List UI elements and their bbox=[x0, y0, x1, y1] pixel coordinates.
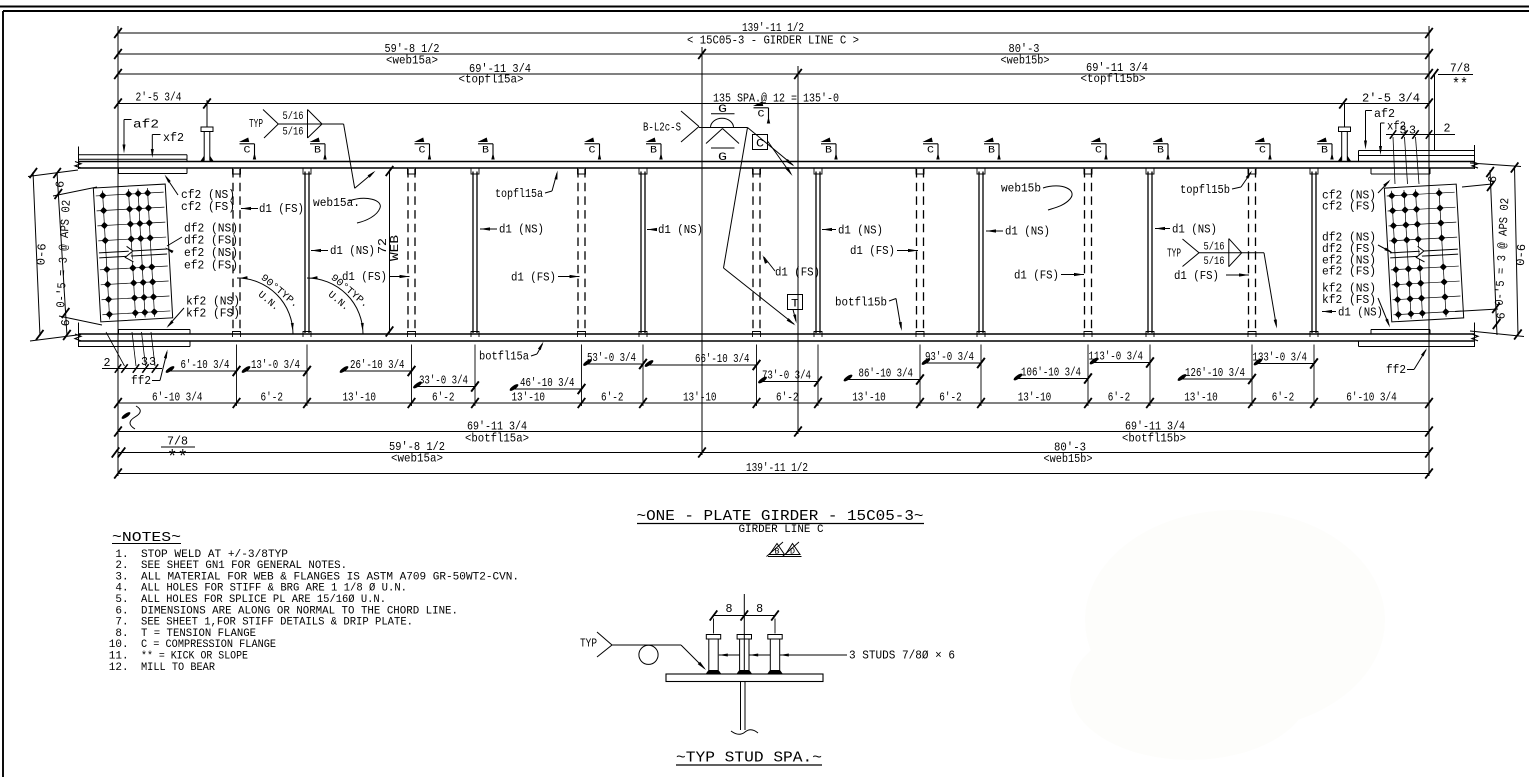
running dim 13'-0 3/4 bbox=[242, 370, 307, 372]
stiffener extension line down at x=920 bbox=[919, 345, 921, 407]
leader from weld symbol to bottom flange splice bbox=[724, 128, 748, 269]
flange splice plate kf2 right bbox=[1371, 329, 1430, 331]
section mark C at x=920 bbox=[923, 143, 938, 145]
svg-text:botfl15b: botfl15b bbox=[835, 296, 887, 310]
dim line web15a / web15b (bottom) bbox=[118, 452, 1429, 454]
stiffener clip top at x=1314 bbox=[1310, 169, 1318, 175]
svg-text:C: C bbox=[758, 109, 765, 121]
dim line 139'-11 1/2 overall (top) bbox=[118, 32, 1429, 34]
web splice bolt group right bbox=[1384, 184, 1463, 322]
extension line flange/field splice centerline x=798 bbox=[797, 66, 799, 434]
right end vertical top bbox=[1474, 145, 1476, 169]
svg-text:ff2: ff2 bbox=[131, 374, 151, 388]
stud detail weld-all-around circle bbox=[639, 645, 658, 664]
svg-text:d1 (NS): d1 (NS) bbox=[330, 244, 375, 258]
svg-text:<topfl15b>: <topfl15b> bbox=[1081, 72, 1146, 86]
stiffener extension line down at x=475 bbox=[474, 345, 476, 407]
svg-text:13'-0 3/4: 13'-0 3/4 bbox=[251, 358, 300, 372]
svg-text:113'-0 3/4: 113'-0 3/4 bbox=[1089, 350, 1144, 364]
svg-text:SEE SHEET GN1 FOR GENERAL NOTE: SEE SHEET GN1 FOR GENERAL NOTES. bbox=[141, 560, 347, 572]
running dim 126'-10 3/4 bbox=[1178, 378, 1252, 380]
left end vertical (adjacent girder stub end) top bbox=[78, 147, 80, 170]
svg-text:B: B bbox=[1321, 145, 1328, 157]
running dim 93'-0 3/4 bbox=[922, 362, 981, 364]
section mark B at x=981 bbox=[984, 143, 999, 145]
svg-text:6'-2: 6'-2 bbox=[261, 391, 283, 405]
svg-text:C: C bbox=[756, 139, 764, 151]
svg-text:xf2: xf2 bbox=[163, 131, 184, 145]
svg-text:3: 3 bbox=[141, 355, 148, 369]
svg-text:5/16: 5/16 bbox=[1204, 242, 1225, 254]
splice fill plate xf2 left bbox=[186, 159, 188, 161]
svg-text:topfl15a: topfl15a bbox=[495, 187, 543, 201]
svg-text:13'-10: 13'-10 bbox=[683, 391, 717, 405]
stiffener clip bottom at x=756.5 bbox=[753, 332, 761, 338]
svg-text:ff2: ff2 bbox=[1386, 363, 1406, 377]
stiffener clip bottom at x=1088 bbox=[1084, 332, 1092, 338]
svg-text:d1 (FS): d1 (FS) bbox=[850, 244, 895, 258]
svg-text:d1 (FS): d1 (FS) bbox=[259, 202, 304, 216]
running dim 66'-10 3/4 bbox=[645, 364, 757, 366]
svg-text:d1 (FS): d1 (FS) bbox=[775, 266, 820, 280]
stiffener clip bottom at x=307 bbox=[303, 332, 311, 338]
svg-text:11.: 11. bbox=[109, 651, 129, 663]
girder bottom flange bottom line bbox=[79, 340, 1475, 342]
svg-text:~TYP STUD SPA.~: ~TYP STUD SPA.~ bbox=[676, 750, 822, 767]
svg-text:3.: 3. bbox=[115, 571, 128, 583]
stiffener clip top at x=920 bbox=[916, 169, 924, 175]
svg-text:3 STUDS 7/8Ø × 6: 3 STUDS 7/8Ø × 6 bbox=[849, 649, 955, 663]
svg-text:C: C bbox=[927, 145, 934, 157]
svg-text:d1 (NS): d1 (NS) bbox=[1338, 306, 1383, 320]
svg-text:139'-11 1/2: 139'-11 1/2 bbox=[746, 461, 808, 475]
web depth dim line 72 WEB bbox=[389, 170, 391, 334]
svg-text:cf2 (FS): cf2 (FS) bbox=[181, 200, 235, 214]
stiffener extension line down at x=1314 bbox=[1313, 345, 1315, 407]
svg-text:5/16: 5/16 bbox=[1204, 256, 1225, 268]
svg-text:2'-5 3/4: 2'-5 3/4 bbox=[1362, 92, 1420, 106]
section mark B at x=818 bbox=[821, 143, 836, 145]
svg-text:6'-10 3/4: 6'-10 3/4 bbox=[1346, 391, 1396, 405]
section mark B at x=307 bbox=[310, 143, 325, 145]
running dim 53'-0 3/4 bbox=[584, 363, 644, 365]
svg-text:~ONE - PLATE GIRDER - 15C05-3~: ~ONE - PLATE GIRDER - 15C05-3~ bbox=[637, 508, 924, 525]
running dim 133'-0 3/4 bbox=[1254, 363, 1314, 365]
svg-text:86'-10 3/4: 86'-10 3/4 bbox=[859, 367, 914, 381]
svg-text:MILL TO BEAR: MILL TO BEAR bbox=[141, 662, 215, 674]
svg-text:6'-10 3/4: 6'-10 3/4 bbox=[180, 358, 229, 372]
svg-text:2: 2 bbox=[1444, 122, 1451, 136]
section mark B at x=475 bbox=[478, 143, 493, 145]
svg-text:7/8: 7/8 bbox=[167, 435, 188, 449]
svg-text:6: 6 bbox=[59, 319, 73, 327]
dim line web15a / web15b (top) bbox=[118, 53, 1429, 55]
svg-text:< 15C05-3 - GIRDER LINE C >: < 15C05-3 - GIRDER LINE C > bbox=[687, 34, 859, 48]
svg-text:<web15a>: <web15a> bbox=[391, 452, 443, 466]
extension line web splice x=702 bbox=[701, 47, 703, 455]
stiffener extension line down at x=581.5 bbox=[581, 345, 583, 407]
flange splice plate cf2 right bbox=[1371, 173, 1430, 175]
vertical dim 6-0 right (tilted) bbox=[1515, 166, 1519, 336]
svg-text:B: B bbox=[1157, 145, 1164, 157]
stiffener d1 (FS dashed) at x=581.5 bbox=[577, 169, 579, 334]
running dim 86'-10 3/4 bbox=[844, 379, 920, 381]
svg-text:6'-2: 6'-2 bbox=[601, 391, 623, 405]
svg-text:7.: 7. bbox=[115, 617, 128, 629]
stiffener clip top at x=411.5 bbox=[408, 169, 416, 175]
section mark C at x=1088 bbox=[1091, 143, 1106, 145]
svg-text:13'-10: 13'-10 bbox=[342, 391, 376, 405]
svg-text:6'-2: 6'-2 bbox=[776, 391, 798, 405]
svg-text:126'-10 3/4: 126'-10 3/4 bbox=[1185, 366, 1245, 380]
svg-text:4.: 4. bbox=[115, 583, 128, 595]
note 7/8 ** kick dim at top right bbox=[1434, 75, 1436, 150]
section mark C at x=750.5 bbox=[754, 107, 769, 109]
svg-text:**: ** bbox=[1452, 76, 1468, 94]
girder bottom flange top line (web bottom) bbox=[79, 333, 1475, 335]
svg-text:T = TENSION FLANGE: T = TENSION FLANGE bbox=[141, 628, 256, 640]
stiffener clip top at x=643 bbox=[639, 169, 647, 175]
stiffener clip top at x=981 bbox=[977, 169, 985, 175]
stiffener d1 (NS solid) at x=818 bbox=[815, 172, 817, 334]
dim line topfl15a / topfl15b (top) bbox=[118, 73, 1429, 75]
svg-text:<botfl15b>: <botfl15b> bbox=[1122, 432, 1186, 446]
svg-text:133'-0 3/4: 133'-0 3/4 bbox=[1253, 351, 1308, 365]
splice fill plate af2 right bbox=[1359, 150, 1475, 152]
section mark C at x=411.5 bbox=[415, 143, 430, 145]
extension line right bearing x=1429 bbox=[1428, 26, 1430, 476]
svg-text:135 SPA.@ 12 = 135'-0: 135 SPA.@ 12 = 135'-0 bbox=[713, 92, 839, 106]
stud post extension line left bbox=[206, 100, 208, 127]
svg-text:d1 (NS): d1 (NS) bbox=[658, 223, 703, 237]
flange splice plate ff2 right bbox=[1359, 346, 1475, 348]
svg-text:46'-10 3/4: 46'-10 3/4 bbox=[520, 376, 575, 390]
flange splice plate cf2 left (under top flange) bbox=[119, 173, 188, 175]
svg-text:B-L2c-S: B-L2c-S bbox=[643, 121, 681, 135]
stiffener extension line down at x=307 bbox=[306, 345, 308, 407]
revision triangles B D bbox=[770, 544, 785, 555]
svg-text:<botfl15a>: <botfl15a> bbox=[465, 432, 529, 446]
stiffener clip top at x=818 bbox=[814, 169, 822, 175]
stiffener extension line down at x=643 bbox=[642, 345, 644, 407]
extension lines for left vertical dims bbox=[28, 170, 78, 177]
stiffener clip top at x=475 bbox=[471, 169, 479, 175]
svg-text:C: C bbox=[1259, 145, 1266, 157]
vertical dim 6 / 20 SPA @ 3 = 5'-0 / 6 right (tilted) bbox=[1490, 170, 1497, 335]
svg-text:12.: 12. bbox=[109, 662, 129, 674]
running dim 46'-10 3/4 bbox=[510, 388, 582, 390]
svg-text:G: G bbox=[718, 152, 727, 164]
stud detail web below flange bbox=[740, 682, 742, 731]
svg-text:ef2 (FS): ef2 (FS) bbox=[1322, 265, 1376, 279]
svg-text:33'-0 3/4: 33'-0 3/4 bbox=[419, 374, 468, 388]
svg-text:STOP WELD AT +/-3/8TYP: STOP WELD AT +/-3/8TYP bbox=[141, 549, 288, 561]
stiffener clip top at x=307 bbox=[303, 169, 311, 175]
svg-text:13'-10: 13'-10 bbox=[852, 391, 886, 405]
leader from weld symbol to top flange splice bbox=[748, 128, 794, 166]
drawing sheet outer border line bbox=[0, 6, 1529, 8]
svg-text:af2: af2 bbox=[133, 118, 159, 132]
stiffener extension line down at x=1150 bbox=[1149, 345, 1151, 407]
svg-text:<topfl15a>: <topfl15a> bbox=[459, 73, 524, 87]
svg-text:C: C bbox=[419, 145, 426, 157]
stiffener extension line down at x=411.5 bbox=[411, 345, 413, 407]
shear stud end post right bbox=[1339, 127, 1351, 132]
running dim 6'-10 3/4 bbox=[166, 370, 237, 372]
bolt column leader lines to 2/3/3 dims right bbox=[1393, 137, 1395, 184]
svg-text:C = COMPRESSION FLANGE: C = COMPRESSION FLANGE bbox=[141, 639, 276, 651]
stiffener clip bottom at x=920 bbox=[916, 332, 924, 338]
svg-text:cf2 (FS): cf2 (FS) bbox=[1322, 200, 1376, 214]
svg-text:WEB: WEB bbox=[388, 235, 402, 261]
girder top flange top line bbox=[79, 161, 1475, 163]
svg-text:13'-10: 13'-10 bbox=[1018, 391, 1052, 405]
svg-text:0-6: 0-6 bbox=[34, 243, 49, 266]
break jag right top flange bbox=[1472, 162, 1478, 169]
svg-text:93'-0 3/4: 93'-0 3/4 bbox=[925, 350, 974, 364]
dim line 2'-5 3/4 + 135 SPA @ 12 (stud spacing) bbox=[118, 103, 1429, 105]
svg-text:6: 6 bbox=[1494, 312, 1508, 320]
svg-text:kf2 (FS): kf2 (FS) bbox=[1322, 293, 1376, 307]
svg-text:B: B bbox=[314, 145, 321, 157]
shear stud end post left bbox=[201, 127, 213, 132]
stiffener clip bottom at x=411.5 bbox=[408, 332, 416, 338]
stiffener d1 (FS dashed) at x=756.5 bbox=[752, 169, 754, 334]
svg-text:6'-10 3/4: 6'-10 3/4 bbox=[152, 391, 202, 405]
svg-text:SEE SHEET 1,FOR STIFF DETAILS: SEE SHEET 1,FOR STIFF DETAILS & DRIP PLA… bbox=[141, 617, 413, 629]
jog/squiggle at start of botfl dim bbox=[121, 411, 132, 420]
stiffener clip bottom at x=818 bbox=[814, 332, 822, 338]
90 deg TYP U.N. arc at first stiffener bbox=[237, 278, 293, 334]
stiffener clip top at x=1252 bbox=[1248, 169, 1256, 175]
section mark C at x=236.5 bbox=[240, 143, 255, 145]
flange splice plate ff2 left (under bottom flange) bbox=[79, 346, 191, 348]
stud post extension line right bbox=[1344, 104, 1346, 127]
svg-text:6: 6 bbox=[1486, 175, 1500, 183]
running dim 26'-10 3/4 bbox=[340, 370, 412, 372]
svg-text:ALL MATERIAL FOR WEB & FLANGES: ALL MATERIAL FOR WEB & FLANGES IS ASTM A… bbox=[141, 571, 519, 583]
running dim 33'-0 3/4 bbox=[414, 386, 476, 388]
svg-text:ef2 (FS): ef2 (FS) bbox=[184, 259, 238, 273]
svg-text:2: 2 bbox=[104, 356, 111, 370]
left end vertical bottom bbox=[78, 323, 80, 348]
stiffener extension line down at x=1252 bbox=[1251, 345, 1253, 407]
svg-text:3: 3 bbox=[149, 355, 156, 369]
svg-text:topfl15b: topfl15b bbox=[1180, 183, 1230, 197]
extension line left bearing x=118 bbox=[117, 26, 119, 476]
vertical dim 6-0 left (tilted with kick) bbox=[33, 172, 40, 336]
svg-text:6: 6 bbox=[53, 180, 67, 188]
section mark C at x=1252 bbox=[1255, 143, 1270, 145]
flange splice plate kf2 left (over bottom flange) bbox=[119, 329, 191, 331]
svg-text:6'-2: 6'-2 bbox=[1272, 391, 1294, 405]
stud detail centerline bbox=[743, 594, 745, 672]
svg-text:**: ** bbox=[167, 449, 188, 469]
svg-text:d1 (NS): d1 (NS) bbox=[838, 224, 883, 238]
svg-text:d1 (FS): d1 (FS) bbox=[1014, 269, 1059, 283]
svg-text:26'-10 3/4: 26'-10 3/4 bbox=[350, 358, 405, 372]
svg-text:web15b: web15b bbox=[1001, 182, 1041, 196]
svg-text:106'-10 3/4: 106'-10 3/4 bbox=[1021, 366, 1081, 380]
stiffener extension line down at x=236.5 bbox=[236, 345, 238, 407]
break jag left top flange bbox=[75, 162, 81, 169]
svg-text:C: C bbox=[589, 145, 596, 157]
bolt column leader lines to 2/3/3 dims left bbox=[106, 332, 125, 366]
right end vertical bottom bbox=[1474, 323, 1476, 348]
break jag right bottom flange bbox=[1472, 334, 1478, 341]
svg-text:B: B bbox=[650, 145, 657, 157]
svg-text:<web15b>: <web15b> bbox=[1044, 452, 1093, 466]
dim line 3 / 3 / 2 right bbox=[1386, 134, 1455, 136]
stiffener clip top at x=236.5 bbox=[233, 169, 241, 175]
stud detail studs (3) bbox=[706, 635, 720, 640]
svg-text:8: 8 bbox=[756, 602, 763, 616]
svg-text:1.: 1. bbox=[115, 549, 128, 561]
svg-text:TYP: TYP bbox=[580, 637, 597, 651]
svg-text:8.: 8. bbox=[115, 628, 128, 640]
stiffener extension line down at x=818 bbox=[817, 345, 819, 407]
boxed label C (compression flange) bbox=[753, 135, 768, 150]
stiffener d1 (FS dashed) at x=236.5 bbox=[232, 169, 234, 334]
section mark C at x=581.5 bbox=[585, 143, 600, 145]
stiffener clip bottom at x=981 bbox=[977, 332, 985, 338]
svg-text:d1 (FS): d1 (FS) bbox=[1174, 269, 1219, 283]
svg-text:B: B bbox=[988, 145, 995, 157]
svg-text:ALL HOLES FOR SPLICE PL ARE 15: ALL HOLES FOR SPLICE PL ARE 15/16Ø U.N. bbox=[141, 594, 386, 606]
svg-text:T: T bbox=[791, 299, 799, 311]
stiffener clip bottom at x=643 bbox=[639, 332, 647, 338]
stiffener clip bottom at x=1314 bbox=[1310, 332, 1318, 338]
svg-text:B: B bbox=[482, 145, 489, 157]
stiffener clip top at x=1088 bbox=[1084, 169, 1092, 175]
svg-text:C: C bbox=[244, 145, 251, 157]
section mark B at x=1314 bbox=[1317, 143, 1332, 145]
dim line 139'-11 1/2 overall (bottom) bbox=[118, 473, 1429, 475]
svg-text:73'-0 3/4: 73'-0 3/4 bbox=[762, 369, 811, 383]
running dim 106'-10 3/4 bbox=[1014, 378, 1088, 380]
svg-text:botfl15a: botfl15a bbox=[479, 350, 529, 364]
running dim 113'-0 3/4 bbox=[1090, 362, 1150, 364]
stiffener clip top at x=1150 bbox=[1146, 169, 1154, 175]
stiffener d1 (NS solid) at x=1314 bbox=[1311, 172, 1313, 334]
stiffener clip top at x=756.5 bbox=[753, 169, 761, 175]
svg-text:d1 (NS): d1 (NS) bbox=[1005, 225, 1050, 239]
stud detail flange plate bbox=[666, 674, 823, 682]
svg-text:6.: 6. bbox=[115, 605, 128, 617]
stiffener clip bottom at x=236.5 bbox=[233, 332, 241, 338]
stiffener extension line down at x=1088 bbox=[1087, 345, 1089, 407]
svg-text:d1 (FS): d1 (FS) bbox=[511, 271, 556, 285]
section mark B at x=1150 bbox=[1153, 143, 1168, 145]
svg-text:6'-2: 6'-2 bbox=[939, 391, 961, 405]
stiffener clip bottom at x=475 bbox=[471, 332, 479, 338]
stiffener d1 (FS dashed) at x=411.5 bbox=[407, 169, 409, 334]
stiffener extension line down at x=756.5 bbox=[756, 345, 758, 407]
stiffener d1 (NS solid) at x=307 bbox=[304, 172, 306, 334]
svg-text:8: 8 bbox=[726, 602, 733, 616]
stiffener clip bottom at x=1150 bbox=[1146, 332, 1154, 338]
svg-text:C: C bbox=[1095, 145, 1102, 157]
svg-text:13'-10: 13'-10 bbox=[1184, 391, 1218, 405]
running dim 73'-0 3/4 bbox=[759, 381, 819, 383]
svg-text:d1 (NS): d1 (NS) bbox=[1172, 223, 1217, 237]
svg-text:6'-2: 6'-2 bbox=[1108, 391, 1130, 405]
stiffener d1 (FS dashed) at x=1088 bbox=[1084, 169, 1086, 334]
svg-text:<web15a>: <web15a> bbox=[386, 54, 438, 68]
svg-text:5.: 5. bbox=[115, 594, 128, 606]
svg-text:B: B bbox=[825, 145, 832, 157]
stiffener d1 (NS solid) at x=643 bbox=[640, 172, 642, 334]
splice fill plate xf2 right bbox=[1358, 156, 1360, 162]
splice fill plate af2 left bbox=[79, 154, 188, 156]
svg-text:10.: 10. bbox=[109, 639, 129, 651]
svg-text:** = KICK OR SLOPE: ** = KICK OR SLOPE bbox=[141, 651, 248, 663]
svg-text:d1 (NS): d1 (NS) bbox=[499, 223, 544, 237]
svg-text:3: 3 bbox=[1409, 124, 1416, 138]
svg-text:6'-2: 6'-2 bbox=[432, 391, 454, 405]
dim line botfl15a / botfl15b (bottom) bbox=[118, 431, 1429, 433]
svg-text:0-6: 0-6 bbox=[1514, 243, 1529, 266]
svg-text:web15a.: web15a. bbox=[313, 196, 360, 210]
svg-text:DIMENSIONS ARE ALONG OR NORMAL: DIMENSIONS ARE ALONG OR NORMAL TO THE CH… bbox=[141, 605, 458, 617]
svg-text:53'-0 3/4: 53'-0 3/4 bbox=[587, 351, 636, 365]
stiffener clip bottom at x=581.5 bbox=[578, 332, 586, 338]
svg-text:TYP: TYP bbox=[1167, 247, 1181, 261]
svg-text:2'-5 3/4: 2'-5 3/4 bbox=[136, 91, 182, 105]
section mark B at x=643 bbox=[646, 143, 661, 145]
dim line 2 / 3 / 3 left bbox=[102, 368, 162, 370]
svg-text:d1 (FS): d1 (FS) bbox=[342, 270, 387, 284]
stiffener clip top at x=581.5 bbox=[578, 169, 586, 175]
faint background blotch bottom right bbox=[1085, 510, 1385, 730]
stiffener d1 (NS solid) at x=1150 bbox=[1147, 172, 1149, 334]
stiffener clip bottom at x=1252 bbox=[1248, 332, 1256, 338]
svg-text:5/16: 5/16 bbox=[283, 111, 304, 123]
90 deg TYP U.N. arc at second stiffener bbox=[307, 278, 363, 334]
svg-text:2.: 2. bbox=[115, 560, 128, 572]
girder top flange bottom line (web top) bbox=[79, 167, 1475, 169]
svg-text:13'-10: 13'-10 bbox=[511, 391, 545, 405]
svg-text:66'-10 3/4: 66'-10 3/4 bbox=[695, 352, 750, 366]
svg-text:GIRDER LINE C: GIRDER LINE C bbox=[739, 524, 824, 536]
panel dim row line (bottom) bbox=[118, 402, 1429, 404]
svg-text:TYP: TYP bbox=[249, 117, 263, 131]
stiffener d1 (FS dashed) at x=920 bbox=[916, 169, 918, 334]
boxed label T (tension flange) bbox=[788, 295, 803, 310]
stud detail dim 8 / 8 bbox=[714, 615, 776, 617]
svg-text:kf2 (FS): kf2 (FS) bbox=[186, 307, 240, 321]
svg-text:5/16: 5/16 bbox=[283, 127, 304, 139]
stiffener d1 (NS solid) at x=475 bbox=[472, 172, 474, 334]
stud detail extension lines above outer studs bbox=[713, 619, 715, 634]
drawing sheet inner frame left bbox=[2, 11, 4, 777]
svg-text:3: 3 bbox=[1400, 124, 1407, 138]
svg-text:ALL HOLES FOR STIFF & BRG ARE: ALL HOLES FOR STIFF & BRG ARE 1 1/8 Ø U.… bbox=[141, 583, 407, 595]
extension lines for right vertical dims bbox=[1470, 163, 1521, 167]
stiffener d1 (NS solid) at x=981 bbox=[978, 172, 980, 334]
break jag left bottom flange bbox=[75, 334, 81, 341]
web splice bolt group left bbox=[93, 184, 172, 322]
stiffener d1 (FS dashed) at x=1252 bbox=[1248, 169, 1250, 334]
vertical dim 6 / 20 SPA @ 3 = 5'-0 / 6 left (tilted) bbox=[57, 172, 67, 336]
svg-text:7/8: 7/8 bbox=[1450, 62, 1470, 76]
svg-text:<web15b>: <web15b> bbox=[1001, 54, 1050, 68]
stiffener extension line down at x=981 bbox=[980, 345, 982, 407]
drawing sheet inner frame top bbox=[3, 10, 1529, 12]
